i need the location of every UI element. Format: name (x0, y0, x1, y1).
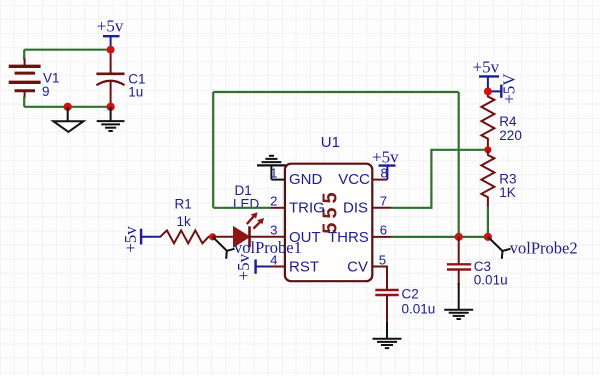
svg-text:+5v: +5v (97, 17, 124, 36)
svg-text:3: 3 (270, 223, 277, 238)
probe volProbe2 (488, 237, 578, 259)
capacitor C2 (375, 267, 435, 324)
svg-text:0.01u: 0.01u (402, 301, 436, 316)
capacitor C1 (96, 50, 145, 107)
svg-text:2: 2 (270, 194, 277, 209)
ground (earth, below C2) (373, 322, 402, 348)
battery V1 (9, 59, 60, 99)
svg-text:7: 7 (380, 194, 387, 209)
wire battery bottom lead (23, 97, 25, 107)
pin 8 stub (372, 179, 387, 181)
resistor R1 (160, 197, 212, 244)
svg-text:LED: LED (233, 197, 260, 212)
junction (bottom, battery/ground) (63, 103, 71, 111)
svg-text:5: 5 (379, 252, 386, 267)
junction (R4 top / +5v) (484, 87, 492, 95)
wire TRIG loop (right vertical down to THRS row) (458, 92, 460, 237)
power +5v (RST pin 4) (234, 253, 271, 280)
svg-text:GND: GND (289, 171, 323, 188)
junction (THRS/top-loop/C3 cross) (455, 233, 463, 241)
svg-text:1: 1 (270, 165, 277, 180)
svg-text:+5v: +5v (234, 253, 253, 280)
svg-text:volProbe2: volProbe2 (510, 238, 578, 257)
junction (R3 bottom / probe2) (484, 233, 492, 241)
svg-text:+5v: +5v (372, 148, 399, 167)
wire TRIG loop (left vertical) (212, 92, 214, 208)
svg-text:1u: 1u (128, 84, 143, 99)
wire TRIG to pin 2 (213, 207, 271, 209)
svg-text:+5v: +5v (121, 226, 140, 253)
wire bottom (battery to C1) (24, 106, 110, 108)
svg-text:0.01u: 0.01u (474, 273, 508, 288)
svg-text:1k: 1k (177, 214, 192, 229)
svg-text:R1: R1 (175, 197, 192, 212)
svg-text:C3: C3 (474, 259, 491, 274)
resistor R4 (481, 91, 521, 149)
junction (R4/R3/DIS) (484, 146, 491, 153)
wire DIS pin 7 to R4/R3 junction (392, 150, 488, 208)
ground (earth, at pin 1) (257, 156, 286, 180)
op-amp/timer IC U1 (555) body (285, 134, 372, 281)
wire THRS pin 6 row (392, 236, 488, 238)
power +5v (VCC pin 8) (372, 148, 399, 180)
power +5v rail (top-left) (97, 17, 124, 50)
power +5v (at R1) (121, 226, 161, 253)
svg-text:CV: CV (347, 258, 368, 275)
svg-text:DIS: DIS (343, 199, 368, 216)
wire battery top lead (23, 50, 25, 60)
wire top (battery to C1) (24, 49, 110, 51)
svg-text:6: 6 (380, 223, 387, 238)
junction (top, +5v/battery/C1) (107, 46, 115, 54)
svg-text:9: 9 (42, 84, 50, 99)
svg-text:1K: 1K (499, 185, 516, 200)
svg-text:RST: RST (289, 258, 319, 275)
ground (chassis triangle, below battery) (53, 107, 83, 132)
power +5V (rotated, right of R4 top) (488, 73, 519, 104)
pin 5 stub (372, 267, 387, 291)
wire R3 bottom to THRS row (487, 206, 489, 237)
ground (earth, below C3) (444, 283, 473, 319)
svg-text:220: 220 (499, 128, 522, 143)
ground (earth, below C1) (97, 107, 125, 131)
wire TRIG loop (top horizontal) (213, 91, 459, 93)
probe volProbe1 (213, 237, 302, 259)
pin 6 stub (372, 236, 391, 238)
svg-text:+5v: +5v (473, 57, 500, 76)
power +5v (top of R4) (473, 57, 500, 91)
svg-text:U1: U1 (321, 134, 340, 151)
junction (bottom, C1/ground) (106, 103, 114, 111)
pin 2 stub (271, 207, 286, 209)
svg-text:R4: R4 (499, 114, 517, 129)
resistor R3 (481, 150, 516, 207)
junction (R1 / LED anode / probe1) (209, 233, 216, 240)
wire LED cathode to pin3 (250, 236, 286, 238)
svg-text:THRS: THRS (328, 229, 369, 246)
pin 4 stub (271, 266, 286, 268)
LED D1 (213, 183, 264, 247)
svg-text:C2: C2 (402, 287, 419, 302)
capacitor C3 (447, 237, 508, 288)
pin 7 stub (372, 207, 391, 209)
svg-text:VCC: VCC (338, 171, 370, 188)
svg-text:TRIG: TRIG (289, 199, 325, 216)
